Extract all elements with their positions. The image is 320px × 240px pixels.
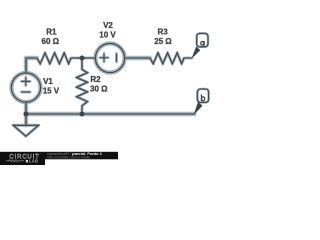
- svg-text:10 V: 10 V: [99, 30, 116, 39]
- svg-text:R2: R2: [90, 75, 101, 84]
- svg-text:25 Ω: 25 Ω: [154, 37, 172, 46]
- svg-text:V1: V1: [43, 77, 53, 86]
- svg-text:15 V: 15 V: [43, 87, 60, 96]
- svg-text:30 Ω: 30 Ω: [90, 84, 108, 93]
- svg-text:V2: V2: [103, 21, 113, 30]
- svg-text:R1: R1: [46, 28, 57, 37]
- svg-text:R3: R3: [158, 28, 169, 37]
- svg-text:http.//circuitlab.com/c/7zv54w: http.//circuitlab.com/c/7zv54w: [47, 156, 91, 160]
- svg-text:LAB: LAB: [29, 159, 38, 164]
- svg-text:60 Ω: 60 Ω: [42, 37, 60, 46]
